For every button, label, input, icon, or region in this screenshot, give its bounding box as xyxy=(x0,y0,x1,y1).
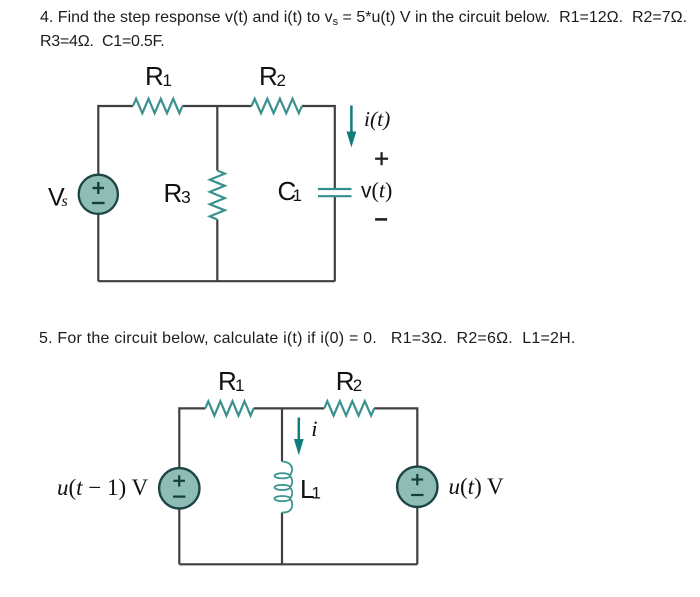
resistor R2 (circuit 2) xyxy=(324,401,374,415)
svg-text:1: 1 xyxy=(293,186,302,205)
current arrow i(t) xyxy=(347,106,357,148)
wire R1 to middle node xyxy=(254,407,325,409)
current arrow i (circuit 2) xyxy=(294,418,304,456)
minus polarity of v(t) xyxy=(375,218,387,221)
wire middle top segment xyxy=(281,408,283,461)
svg-text:R: R xyxy=(259,61,278,91)
resistor R3 xyxy=(210,171,225,220)
wire R1 to middle node xyxy=(183,105,252,107)
wire R2 to top-right corner xyxy=(302,106,335,188)
resistor R1 xyxy=(133,99,183,113)
svg-text:1: 1 xyxy=(163,71,172,90)
svg-text:u(t) V: u(t) V xyxy=(449,474,505,499)
wire R2 to top-right corner xyxy=(374,408,417,466)
wire right below capacitor xyxy=(334,197,336,281)
svg-text:s: s xyxy=(62,193,68,210)
voltage source u(t) xyxy=(397,467,437,507)
svg-text:1: 1 xyxy=(312,484,321,503)
svg-text:i(t): i(t) xyxy=(364,107,390,131)
svg-text:R: R xyxy=(336,366,355,396)
plus sign of right source xyxy=(411,474,423,495)
wire bottom rail xyxy=(98,280,334,282)
wire left bottom segment xyxy=(178,508,180,564)
voltage source Vs xyxy=(79,175,118,214)
svg-text:(t): (t) xyxy=(372,178,393,203)
plus sign of left source xyxy=(173,475,185,496)
wire middle bottom segment xyxy=(281,513,283,565)
wire top-left segment xyxy=(179,408,205,468)
svg-text:1: 1 xyxy=(235,376,244,395)
wire middle bottom segment xyxy=(216,220,218,282)
svg-text:u(t − 1) V: u(t − 1) V xyxy=(57,475,149,500)
wire top-left segment (node A to R1) xyxy=(98,106,133,175)
capacitor C1 xyxy=(318,189,352,196)
svg-text:i: i xyxy=(311,416,317,441)
plus polarity of v(t) xyxy=(375,152,388,165)
minus sign of Vs xyxy=(92,202,105,204)
svg-text:2: 2 xyxy=(277,71,286,90)
svg-text:2: 2 xyxy=(353,376,362,395)
wire left bottom segment xyxy=(97,214,99,281)
minus sign of right source xyxy=(411,494,423,496)
wire bottom rail xyxy=(179,563,417,565)
voltage source u(t-1) xyxy=(159,468,199,508)
minus sign of left source xyxy=(173,496,185,498)
svg-text:v: v xyxy=(361,180,372,203)
svg-text:R: R xyxy=(218,366,237,396)
wire middle top segment xyxy=(216,106,218,171)
problem 4 statement line 2 xyxy=(40,32,164,51)
resistor R2 xyxy=(252,99,303,113)
plus sign of Vs xyxy=(92,182,105,203)
inductor L1 coil xyxy=(275,462,293,513)
problem 5 statement xyxy=(39,329,576,348)
wire right bottom segment xyxy=(416,507,418,564)
problem 4 statement line 1 xyxy=(40,8,687,32)
svg-text:3: 3 xyxy=(181,187,191,207)
svg-text:R: R xyxy=(145,61,164,91)
resistor R1 (circuit 2) xyxy=(205,401,253,415)
svg-text:R: R xyxy=(164,178,183,208)
